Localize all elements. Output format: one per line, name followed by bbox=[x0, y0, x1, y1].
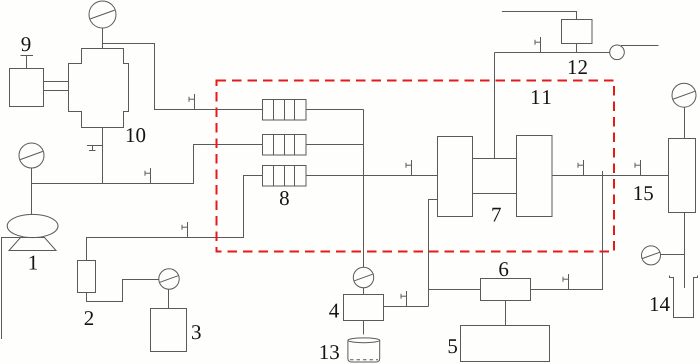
svg-text:5: 5 bbox=[447, 334, 458, 358]
wire junction to 6 bbox=[429, 289, 481, 291]
wire 6 right up to main pipe bbox=[531, 171, 603, 290]
component 4 bbox=[344, 295, 384, 321]
svg-text:3: 3 bbox=[191, 320, 202, 344]
pressure gauge G15 bbox=[672, 83, 696, 107]
valve V1 bbox=[189, 94, 195, 110]
wire G10 to vessel 10 bbox=[102, 28, 104, 49]
component 9 bbox=[10, 69, 44, 107]
dip tube 15 to beaker 14 bbox=[684, 213, 686, 289]
manifold wire down to gauge G4 bbox=[363, 110, 365, 268]
header wire 12 bbox=[495, 52, 611, 54]
component 3 bbox=[151, 309, 187, 352]
component 12 bbox=[562, 20, 593, 44]
heater 8a bbox=[263, 100, 307, 121]
bubbler circle after 12 bbox=[610, 45, 625, 60]
wire heater 1 right bbox=[306, 109, 364, 111]
heater 8c bbox=[263, 166, 307, 187]
component 2 bbox=[78, 261, 96, 293]
valve V3 bbox=[182, 222, 188, 238]
reactor outlet wire down bbox=[429, 200, 438, 307]
thermocouple below 10 bbox=[87, 146, 103, 151]
reactor 7 right column bbox=[517, 136, 553, 217]
valve V8 bbox=[401, 291, 407, 307]
reactor 7 left column bbox=[438, 137, 473, 217]
beaker 13 bbox=[348, 338, 380, 362]
svg-text:13: 13 bbox=[319, 340, 340, 364]
wire 6 to 5 bbox=[505, 301, 507, 326]
svg-text:15: 15 bbox=[633, 181, 654, 205]
wire 12 to header bbox=[576, 44, 578, 53]
svg-text:9: 9 bbox=[21, 32, 32, 56]
wire G14 to dip tube bbox=[661, 254, 685, 256]
wire 2 up to heater 3 bbox=[87, 176, 263, 261]
wire branch to heater 1 bbox=[103, 44, 263, 110]
wire 12 header down to reactor 7 bbox=[494, 53, 496, 159]
svg-text:11: 11 bbox=[530, 85, 553, 109]
svg-text:10: 10 bbox=[125, 123, 146, 147]
top feed wire to 12 bbox=[502, 12, 577, 20]
svg-text:12: 12 bbox=[567, 55, 588, 79]
wire G15 to 15 bbox=[684, 107, 686, 138]
bubbler vent wire bbox=[621, 45, 659, 47]
drain wire from pump bbox=[2, 238, 21, 340]
wire 2 to gauge G3 bbox=[87, 280, 159, 302]
valve V6 bbox=[578, 160, 584, 176]
wire reactor 7 to separator 15 bbox=[552, 175, 669, 177]
vessel 10 bbox=[69, 49, 129, 128]
reactor 7 connectors bbox=[473, 159, 517, 194]
wire heater 2 right bbox=[306, 144, 364, 146]
heater 8b bbox=[263, 135, 307, 156]
wire heater 3 to reactor 7 bbox=[306, 175, 438, 177]
separator 15 bbox=[669, 139, 696, 213]
pressure gauge G4 bbox=[353, 267, 373, 287]
pressure gauge G14 bbox=[642, 246, 661, 265]
thermocouple on 9 bbox=[21, 56, 34, 69]
wire G4 to 4 bbox=[363, 288, 365, 295]
valve V5 bbox=[535, 37, 541, 53]
svg-text:4: 4 bbox=[329, 299, 340, 323]
wire G1 to pump 1 bbox=[31, 168, 33, 215]
svg-text:1: 1 bbox=[28, 251, 39, 275]
svg-text:6: 6 bbox=[498, 257, 509, 281]
pressure gauge G3 bbox=[159, 269, 179, 289]
wire pump line to heater 2 bbox=[32, 145, 263, 184]
valve V7 bbox=[635, 160, 641, 176]
svg-text:8: 8 bbox=[279, 186, 290, 210]
svg-text:14: 14 bbox=[649, 292, 671, 316]
pressure gauge G10 bbox=[89, 1, 116, 28]
valve V9 bbox=[563, 274, 569, 290]
pressure gauge G1 bbox=[19, 143, 44, 168]
component 5 bbox=[461, 326, 550, 362]
svg-text:2: 2 bbox=[84, 306, 95, 330]
wire 4 to beaker 13 bbox=[363, 321, 365, 335]
wire vessel 10 down bbox=[102, 128, 104, 184]
beaker 14 bbox=[670, 276, 698, 318]
svg-text:7: 7 bbox=[491, 203, 502, 227]
pump 1 bbox=[7, 214, 58, 250]
wire 4 to junction bbox=[384, 306, 429, 308]
valve V4 bbox=[406, 160, 412, 176]
component 6 bbox=[481, 279, 531, 301]
red dashed boundary 11 bbox=[217, 81, 615, 252]
wire G3 to 3 bbox=[168, 289, 170, 308]
double link 9 to 10 bbox=[44, 82, 69, 91]
valve V2 bbox=[145, 168, 151, 184]
